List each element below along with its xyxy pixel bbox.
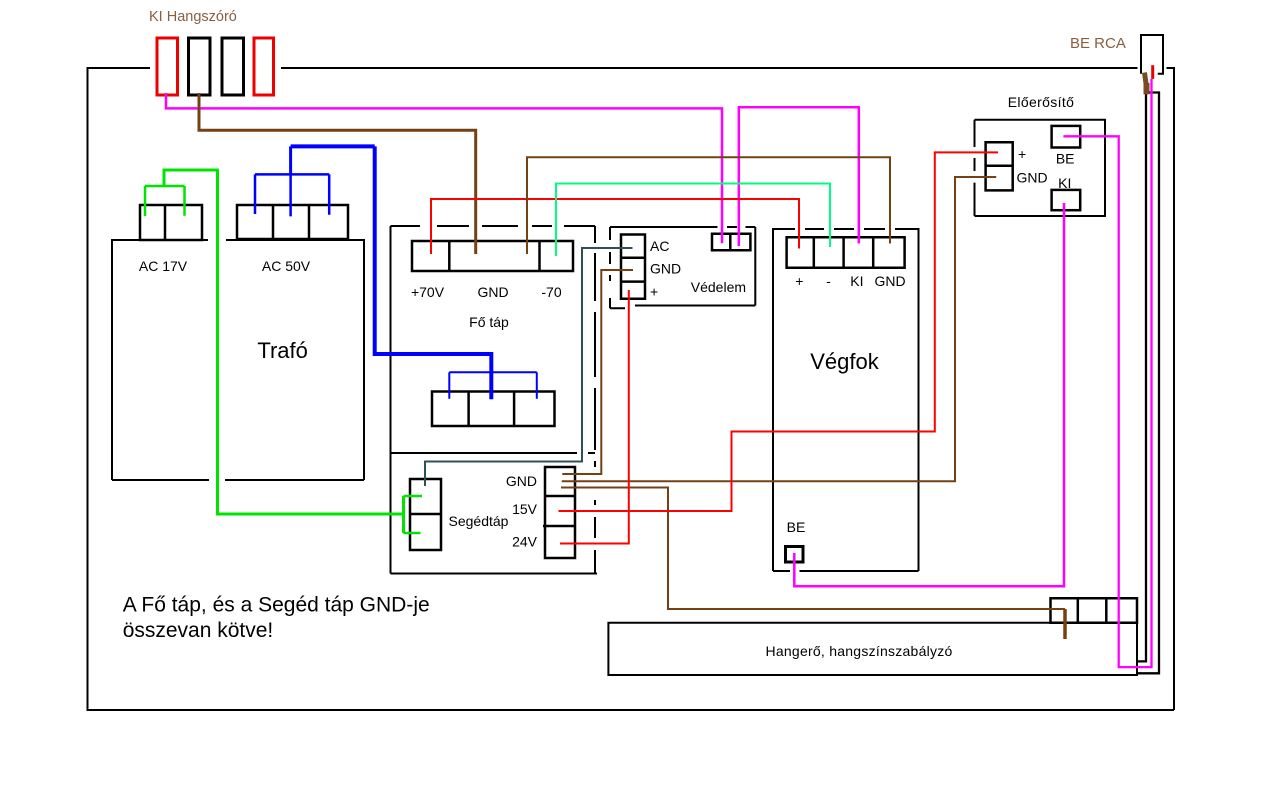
Segedtap two-cell terminal block — [410, 479, 441, 550]
svg-text:15V: 15V — [512, 501, 538, 517]
svg-text:+: + — [1018, 146, 1026, 162]
Vedelem box dashed left edge — [609, 227, 611, 308]
svg-text:Előerősítő: Előerősítő — [1008, 94, 1075, 110]
wire green Segedtap fork top stub — [404, 495, 423, 498]
wire brown speaker to Fo tap GND — [199, 93, 476, 254]
wire brown Segedtap GND to Hangero horizontal — [561, 488, 1065, 610]
svg-text:Trafó: Trafó — [257, 338, 308, 363]
wire blue main feed AC50V to Fo tap inner block — [375, 146, 492, 399]
Vedelem two-cell terminal block — [712, 234, 750, 250]
speaker terminal red rect 1 — [157, 38, 178, 95]
svg-text:GND: GND — [477, 284, 508, 300]
svg-text:+70V: +70V — [411, 284, 445, 300]
wire red Fo tap +70V to Vegfok + — [431, 199, 799, 254]
svg-text:AC 50V: AC 50V — [262, 258, 311, 274]
svg-text:KI Hangszóró: KI Hangszóró — [149, 9, 237, 25]
wire teal Segedtap AC to Vedelem AC — [425, 248, 633, 486]
wire green AC17V lower bracket — [145, 186, 185, 216]
wire green AC17V bracket top horizontal — [164, 169, 219, 172]
svg-text:Védelem: Védelem — [691, 279, 746, 295]
BE RCA jack box — [1141, 35, 1163, 74]
svg-text:Fő táp: Fő táp — [469, 314, 509, 330]
svg-text:összevan kötve!: összevan kötve! — [123, 619, 274, 642]
wire brown Hangero entry vertical — [1063, 609, 1067, 639]
svg-text:Hangerő, hangszínszabályzó: Hangerő, hangszínszabályzó — [765, 643, 952, 659]
Fo tap box dashed right edge — [594, 226, 596, 574]
wire red Segedtap 15V to Eloerosito + — [559, 152, 999, 511]
wire brown Segedtap GND to Eloerosito GND — [562, 177, 997, 481]
wire magenta Eloerosito BE to RCA via Hangero loop — [1063, 79, 1151, 667]
svg-text:BE: BE — [787, 519, 806, 535]
svg-text:A Fő táp, és a Segéd táp GND-j: A Fő táp, és a Segéd táp GND-je — [123, 594, 430, 617]
wire magenta Vedelem cell2 to Vegfok KI — [739, 107, 859, 246]
svg-text:AC: AC — [650, 238, 669, 254]
Fo tap terminal block — [412, 241, 573, 271]
Vegfok box dashed top edge — [773, 228, 919, 230]
Fo tap box top edge with gaps at wire crossings — [391, 225, 596, 227]
svg-text:-: - — [826, 273, 831, 289]
Segedtap GND/15V/24V terminal block — [543, 467, 575, 558]
Vedelem box right edge — [754, 227, 756, 306]
Hangero box — [608, 623, 1137, 675]
Fo tap inner blue-fed terminal block — [432, 392, 555, 427]
Vedelem AC/GND/+ terminal column — [621, 235, 645, 299]
Trafo box — [112, 239, 364, 480]
Eloerosito box dashed left edge — [974, 120, 976, 216]
Vedelem box bottom edge pieces — [610, 306, 755, 309]
Vegfok box left right bottom edges — [773, 228, 919, 571]
AC 50V terminal block — [237, 205, 348, 239]
svg-text:BE RCA: BE RCA — [1070, 35, 1126, 52]
svg-text:Végfok: Végfok — [810, 349, 879, 374]
Eloerosito box top right bottom edges — [975, 120, 1106, 216]
Eloerosito KI terminal square — [1052, 190, 1081, 210]
wire green Segedtap fork vertical — [402, 496, 405, 533]
Vegfok BE input square — [786, 547, 804, 563]
svg-text:KI: KI — [1058, 175, 1071, 191]
svg-text:BE: BE — [1056, 151, 1075, 167]
red stub inside RCA jack — [1151, 65, 1154, 79]
wire magenta speaker to Vedelem cell1 — [166, 93, 722, 243]
wire magenta Eloerosito KI to Vegfok BE — [794, 203, 1064, 586]
outer chassis border bottom edge — [87, 709, 1175, 711]
wire blue AC50V top bracket — [291, 144, 375, 148]
svg-text:AC 17V: AC 17V — [139, 258, 188, 274]
svg-text:-70: -70 — [541, 284, 561, 300]
wire blue inner block thin bracket — [449, 372, 537, 399]
outer chassis border left edge — [87, 67, 89, 710]
wire green Segedtap fork bottom stub — [404, 532, 421, 535]
wire blue AC50V bracket left drop — [289, 146, 292, 174]
svg-text:+: + — [795, 273, 803, 289]
svg-text:KI: KI — [850, 273, 863, 289]
svg-text:GND: GND — [650, 261, 681, 277]
speaker terminal black rect 2 — [189, 38, 211, 95]
Vedelem box dashed top edge — [610, 226, 755, 228]
svg-text:GND: GND — [874, 273, 905, 289]
wire brown Vedelem GND to Segedtap GND — [562, 270, 633, 474]
wire springgreen Fo tap -70 to Vegfok minus — [556, 184, 830, 257]
speaker terminal red rect 4 — [254, 38, 274, 95]
wire red Vedelem + to Segedtap 24V — [560, 290, 629, 544]
AC 17V terminal block — [140, 205, 202, 240]
wire green AC17V main vertical to Segedtap — [218, 170, 404, 514]
speaker terminal black rect 3 — [222, 38, 244, 95]
Eloerosito +/GND terminal column — [986, 142, 1013, 190]
Hangero terminal block — [1051, 598, 1138, 623]
outer chassis border right edge — [1173, 67, 1175, 710]
wire brown Fo tap GND to Vegfok GND — [527, 157, 890, 254]
svg-text:GND: GND — [506, 473, 537, 489]
wire blue AC50V lower bracket — [255, 174, 329, 216]
wire green AC17V bracket left drop — [163, 169, 166, 187]
svg-text:+: + — [650, 284, 658, 300]
brown blob near RCA lower stroke — [1144, 83, 1150, 94]
Vegfok terminal block — [787, 237, 905, 267]
outer chassis border top edge — [88, 67, 1174, 69]
svg-text:24V: 24V — [512, 534, 538, 550]
brown blob near RCA upper stroke — [1145, 73, 1147, 84]
svg-text:GND: GND — [1017, 170, 1048, 186]
Fo tap box bottom edge — [391, 573, 598, 575]
Fo tap box left edge — [390, 226, 392, 574]
Fo tap / Segedtap divider line — [391, 452, 596, 454]
shielded cable outline from RCA to Hangero — [1138, 93, 1159, 674]
Eloerosito BE terminal square — [1052, 126, 1081, 148]
svg-text:Segédtáp: Segédtáp — [449, 513, 509, 529]
